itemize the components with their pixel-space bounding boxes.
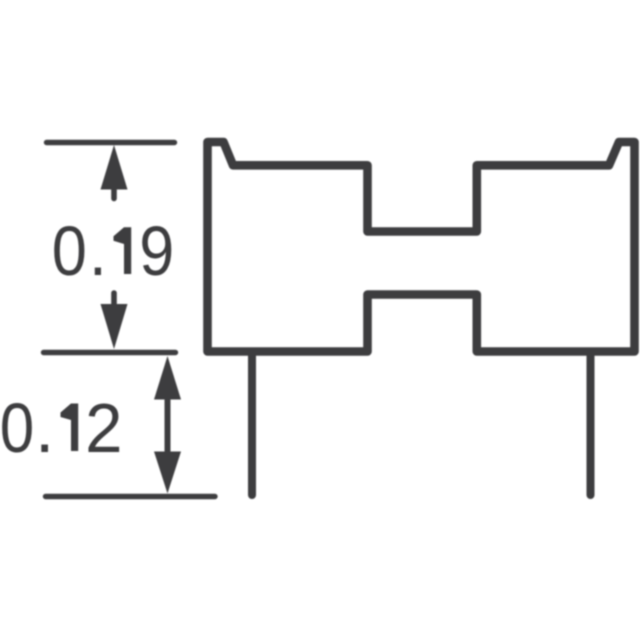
lead right bbox=[587, 353, 595, 495]
dimension line middle bbox=[44, 350, 176, 355]
arrow down (0.19 lower) bbox=[101, 293, 128, 349]
lead left bbox=[248, 353, 256, 495]
svg-text:.: . bbox=[35, 389, 54, 467]
dimension label 0.12 bbox=[0, 389, 122, 467]
dimension line top bbox=[47, 140, 175, 145]
svg-text:0: 0 bbox=[0, 389, 34, 467]
component body outline bbox=[208, 142, 635, 352]
arrow up (0.19 upper) bbox=[101, 145, 128, 199]
svg-text:2: 2 bbox=[85, 389, 122, 467]
double arrow (0.12) bbox=[154, 356, 181, 494]
svg-text:0: 0 bbox=[52, 212, 87, 290]
svg-text:9: 9 bbox=[139, 212, 174, 290]
dimension label 0.19 bbox=[52, 212, 175, 290]
dimension line bottom bbox=[46, 494, 216, 499]
svg-text:.: . bbox=[89, 212, 107, 290]
